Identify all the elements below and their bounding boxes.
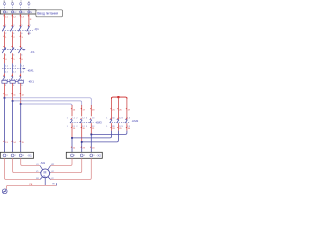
KM3 link dashed	[70, 121, 94, 123]
link wire R1 to M1	[72, 131, 112, 138]
wire flag L2	[11, 15, 12, 17]
svg-text:21: 21	[92, 128, 95, 130]
svg-text:23: 23	[83, 148, 86, 150]
wire 20 KM3 down	[81, 123, 83, 142]
bridge junction dot	[117, 96, 119, 98]
wire 22 to X2	[71, 138, 73, 152]
PE wire end stub	[56, 183, 58, 185]
wire flag 2	[11, 35, 12, 37]
wire flag 17	[80, 108, 81, 110]
svg-text:26: 26	[119, 109, 122, 111]
wire 30 KM2 down	[126, 123, 128, 131]
Q1 mechanical link	[2, 30, 33, 32]
svg-text:6: 6	[21, 85, 23, 87]
terminal circle N	[28, 3, 30, 5]
svg-text:1: 1	[5, 25, 6, 27]
link wire R3 to M3	[91, 131, 127, 135]
terminal strip X2	[66, 152, 102, 158]
wire flag 24	[90, 146, 91, 148]
svg-text:3: 3	[13, 25, 14, 27]
contactor KM3 contact	[90, 119, 92, 122]
wire X1-3 to motor U1	[21, 158, 40, 165]
svg-text:2.3: 2.3	[21, 72, 25, 74]
F1 mechanical link	[2, 49, 24, 51]
terminal circle А1	[3, 3, 5, 5]
svg-text:1: 1	[106, 126, 107, 128]
svg-text:27: 27	[128, 109, 131, 111]
wire flag 12	[19, 93, 20, 95]
svg-text:1.2: 1.2	[82, 118, 85, 120]
wire flag 19	[71, 127, 72, 129]
motor M1	[41, 169, 50, 178]
svg-text:1: 1	[67, 126, 68, 128]
wire 28 KM2 down	[111, 123, 113, 131]
svg-text:5: 5	[13, 59, 15, 61]
ground electrode	[2, 189, 7, 194]
svg-text:3: 3	[122, 126, 123, 128]
wire 19 KM3 down	[71, 123, 73, 138]
svg-text:3: 3	[86, 126, 87, 128]
svg-text:С1: С1	[20, 0, 22, 3]
svg-text:13: 13	[5, 142, 8, 144]
svg-text:22: 22	[73, 148, 76, 150]
branch wire B to M2	[13, 101, 82, 106]
X1 terminal 2	[11, 154, 14, 157]
svg-text:1.3: 1.3	[21, 65, 25, 67]
svg-text:28: 28	[112, 128, 115, 130]
contactor KM2 contact	[125, 119, 127, 122]
KM2 link dashed	[110, 121, 130, 123]
svg-text:25: 25	[112, 109, 115, 111]
svg-text:-КМ1: -КМ1	[27, 69, 34, 73]
svg-text:30: 30	[128, 128, 131, 130]
thermal relay KK1 heater	[18, 80, 23, 83]
motor PE stub	[44, 178, 46, 186]
terminal strip X1	[0, 152, 33, 158]
svg-text:8: 8	[30, 33, 31, 35]
wire 11 KK1 to node	[12, 83, 14, 101]
wire L1 bar to Q1	[4, 14, 6, 27]
wire flag 23	[80, 146, 81, 148]
wire flag 14	[11, 140, 12, 142]
svg-text:1.3: 1.3	[92, 118, 95, 120]
breaker F1 pole	[19, 49, 22, 54]
wire flag 6	[19, 57, 20, 59]
wire flag 29	[117, 127, 118, 129]
wire dashed drop С1	[20, 5, 22, 10]
wire X2-1 to motor W2	[51, 158, 73, 165]
svg-text:24: 24	[92, 148, 95, 150]
wire 26 bridge to KM2	[117, 97, 119, 119]
busbar terminal L2	[12, 11, 14, 13]
svg-text:4: 4	[13, 85, 15, 87]
wire flag N	[28, 15, 29, 17]
svg-text:3~: 3~	[43, 174, 47, 178]
svg-text:19: 19	[73, 128, 76, 130]
thermal relay KK1 heater	[2, 80, 7, 83]
switch Q1 pole	[2, 27, 5, 32]
svg-text:1.3: 1.3	[127, 118, 130, 120]
junction dot at M3	[90, 134, 92, 136]
wire 27 bridge to KM2	[126, 97, 128, 119]
node A junction dot	[4, 97, 6, 99]
switch Q1 pole	[19, 27, 22, 32]
wire N stub below Q1	[28, 31, 30, 34]
motor stub U2	[49, 172, 52, 175]
motor stub W1	[40, 177, 43, 180]
svg-text:4: 4	[13, 55, 14, 57]
wire flag 10	[3, 93, 4, 95]
wire 15 node to X1	[20, 104, 22, 152]
svg-text:-Q1: -Q1	[34, 27, 39, 31]
wire flag 27	[126, 108, 127, 110]
wire flag 21	[90, 127, 91, 129]
star bridge bar	[112, 97, 127, 99]
svg-text:4: 4	[5, 59, 7, 61]
wire 23 to X2	[81, 142, 83, 152]
svg-text:-Х2: -Х2	[96, 154, 101, 158]
wire 25 bridge to KM2	[111, 97, 113, 119]
svg-text:2.1: 2.1	[5, 72, 9, 74]
breaker F1 pole	[10, 49, 13, 54]
X2 terminal 1	[71, 154, 74, 157]
wire flag 4	[3, 57, 4, 59]
svg-text:L1: L1	[5, 16, 8, 18]
svg-text:2: 2	[5, 85, 7, 87]
svg-text:10: 10	[5, 94, 8, 96]
wire 24 to X2	[90, 134, 92, 152]
svg-text:1: 1	[5, 37, 7, 39]
svg-text:5: 5	[21, 25, 22, 27]
wire flag 13	[3, 140, 4, 142]
svg-text:L3: L3	[22, 16, 25, 18]
wire 12 KK1 to node	[20, 83, 22, 104]
svg-text:N: N	[30, 19, 32, 21]
svg-text:12: 12	[22, 94, 25, 96]
svg-text:7: 7	[30, 25, 31, 27]
feeder name box	[36, 10, 63, 17]
breaker F1 pole	[2, 49, 5, 54]
svg-text:20: 20	[83, 128, 86, 130]
svg-text:15: 15	[22, 142, 25, 144]
svg-text:-КМ2: -КМ2	[132, 119, 139, 123]
busbar	[0, 10, 36, 14]
motor stub U1	[40, 166, 43, 171]
contactor KM3 contact	[70, 119, 72, 122]
wire flag 28	[110, 127, 111, 129]
svg-text:1.1: 1.1	[5, 65, 9, 67]
wire 21 KM3 down	[90, 123, 92, 134]
svg-text:3: 3	[122, 118, 123, 120]
svg-text:3: 3	[86, 118, 87, 120]
wire flag 5	[11, 57, 12, 59]
contactor KM2 contact	[110, 119, 112, 122]
wire flag L3	[19, 15, 20, 17]
wire flag 22	[71, 146, 72, 148]
svg-text:1: 1	[106, 118, 107, 120]
wire L3 bar to Q1	[20, 14, 22, 27]
svg-text:14: 14	[13, 142, 16, 144]
wire flag 30	[126, 127, 127, 129]
wire 18 branch to KM3	[90, 105, 92, 116]
wire 10 KK1 to node	[4, 83, 6, 98]
busbar terminal L3	[20, 11, 22, 13]
wire X2-2 to motor U2	[51, 158, 82, 172]
svg-text:2: 2	[13, 37, 15, 39]
wire X1-2 to motor V1	[13, 158, 40, 172]
svg-text:L3: L3	[22, 12, 24, 14]
svg-text:-F1: -F1	[30, 50, 35, 54]
wire X1-1 to motor W1	[5, 158, 41, 179]
wire flag 20	[80, 127, 81, 129]
wire flag 3	[19, 35, 20, 37]
wire flag L1	[3, 15, 4, 17]
svg-text:1.1: 1.1	[72, 118, 75, 120]
thermal relay KK1 heater	[10, 80, 15, 83]
X2 terminal 2	[80, 154, 83, 157]
switch Q1 pole	[27, 27, 30, 32]
link wire R2 to M2	[82, 131, 119, 142]
svg-text:В1: В1	[12, 0, 14, 3]
wire N bar to Q1	[28, 14, 30, 27]
wire 6 F1 to KM1	[20, 53, 22, 63]
contactor KM3 contact	[80, 119, 82, 122]
svg-text:L2: L2	[14, 12, 16, 14]
svg-text:29: 29	[119, 128, 122, 130]
svg-text:1.2: 1.2	[13, 65, 17, 67]
busbar terminal N	[28, 11, 30, 13]
motor stub W2	[48, 166, 51, 171]
contactor KM1 contact	[19, 76, 21, 79]
svg-text:6: 6	[21, 33, 22, 35]
wire dashed drop В1	[12, 5, 14, 10]
svg-text:L1: L1	[6, 12, 8, 14]
svg-text:2: 2	[76, 118, 77, 120]
svg-text:17: 17	[83, 109, 86, 111]
wire flag 16	[71, 108, 72, 110]
wire 2 Q1 to F1	[12, 31, 14, 47]
X1 terminal 1	[3, 154, 6, 157]
svg-text:18: 18	[92, 109, 95, 111]
busbar terminal L1	[3, 11, 5, 13]
wire flag 18	[90, 108, 91, 110]
svg-text:N: N	[29, 1, 31, 3]
wire 29 KM2 down	[117, 123, 119, 131]
wire 13 node to X1	[4, 98, 6, 153]
svg-text:2.2: 2.2	[13, 72, 17, 74]
svg-text:1: 1	[67, 118, 68, 120]
wire 3 Q1 to F1	[20, 31, 22, 47]
wire dashed drop А1	[4, 5, 6, 10]
svg-text:3: 3	[22, 37, 24, 39]
node C junction dot	[20, 103, 22, 105]
branch wire A to M3	[5, 98, 92, 106]
svg-text:2: 2	[113, 118, 114, 120]
svg-text:16: 16	[73, 109, 76, 111]
X1 terminal 3	[19, 154, 22, 157]
branch wire C to M1	[21, 104, 72, 106]
KM1 link dashed	[2, 79, 23, 81]
trip link dashed	[2, 68, 24, 70]
svg-text:2: 2	[76, 126, 77, 128]
wire flag 26	[117, 108, 118, 110]
contactor KM1 contact	[11, 76, 13, 79]
wire flag 11	[11, 93, 12, 95]
contactor KM2 contact	[117, 119, 119, 122]
switch Q1 pole	[10, 27, 13, 32]
wire 16 branch to KM3	[71, 105, 73, 116]
terminal circle В1	[12, 3, 14, 5]
svg-text:L2: L2	[13, 16, 16, 18]
svg-text:Ввод питания: Ввод питания	[37, 11, 58, 15]
motor stub V2	[48, 177, 51, 180]
wire dashed drop N	[28, 5, 30, 10]
svg-text:6: 6	[21, 55, 22, 57]
wire flag 25	[110, 108, 111, 110]
svg-text:2: 2	[5, 55, 6, 57]
wire 5 F1 to KM1	[12, 53, 14, 63]
motor stub V1	[39, 172, 42, 175]
wire 17 branch to KM3	[81, 105, 83, 116]
svg-text:4: 4	[13, 33, 14, 35]
node B junction dot	[12, 100, 14, 102]
svg-text:-КМ3: -КМ3	[95, 120, 102, 124]
wire 14 node to X1	[12, 101, 14, 152]
wire 4 F1 to KM1	[4, 53, 6, 63]
PE wire to ground	[5, 185, 56, 189]
svg-text:-М1: -М1	[40, 161, 45, 165]
wire flag 1	[3, 35, 4, 37]
wire flag 15	[19, 140, 20, 142]
svg-text:2: 2	[5, 33, 6, 35]
svg-text:-КК1: -КК1	[28, 79, 34, 83]
junction dot at M2	[81, 141, 83, 143]
svg-text:6: 6	[22, 59, 24, 61]
wire L2 bar to Q1	[12, 14, 14, 27]
terminal circle С1	[20, 3, 22, 5]
contactor KM1 contact	[3, 76, 5, 79]
X2 terminal 3	[90, 154, 93, 157]
junction dot at M1	[71, 137, 73, 139]
svg-text:-Х1: -Х1	[27, 154, 32, 158]
svg-text:11: 11	[13, 94, 16, 96]
wire X2-3 to motor V2	[51, 158, 92, 179]
wire 1 Q1 to F1	[4, 31, 6, 47]
svg-text:А1: А1	[3, 0, 6, 3]
KK1 link line	[2, 81, 23, 83]
